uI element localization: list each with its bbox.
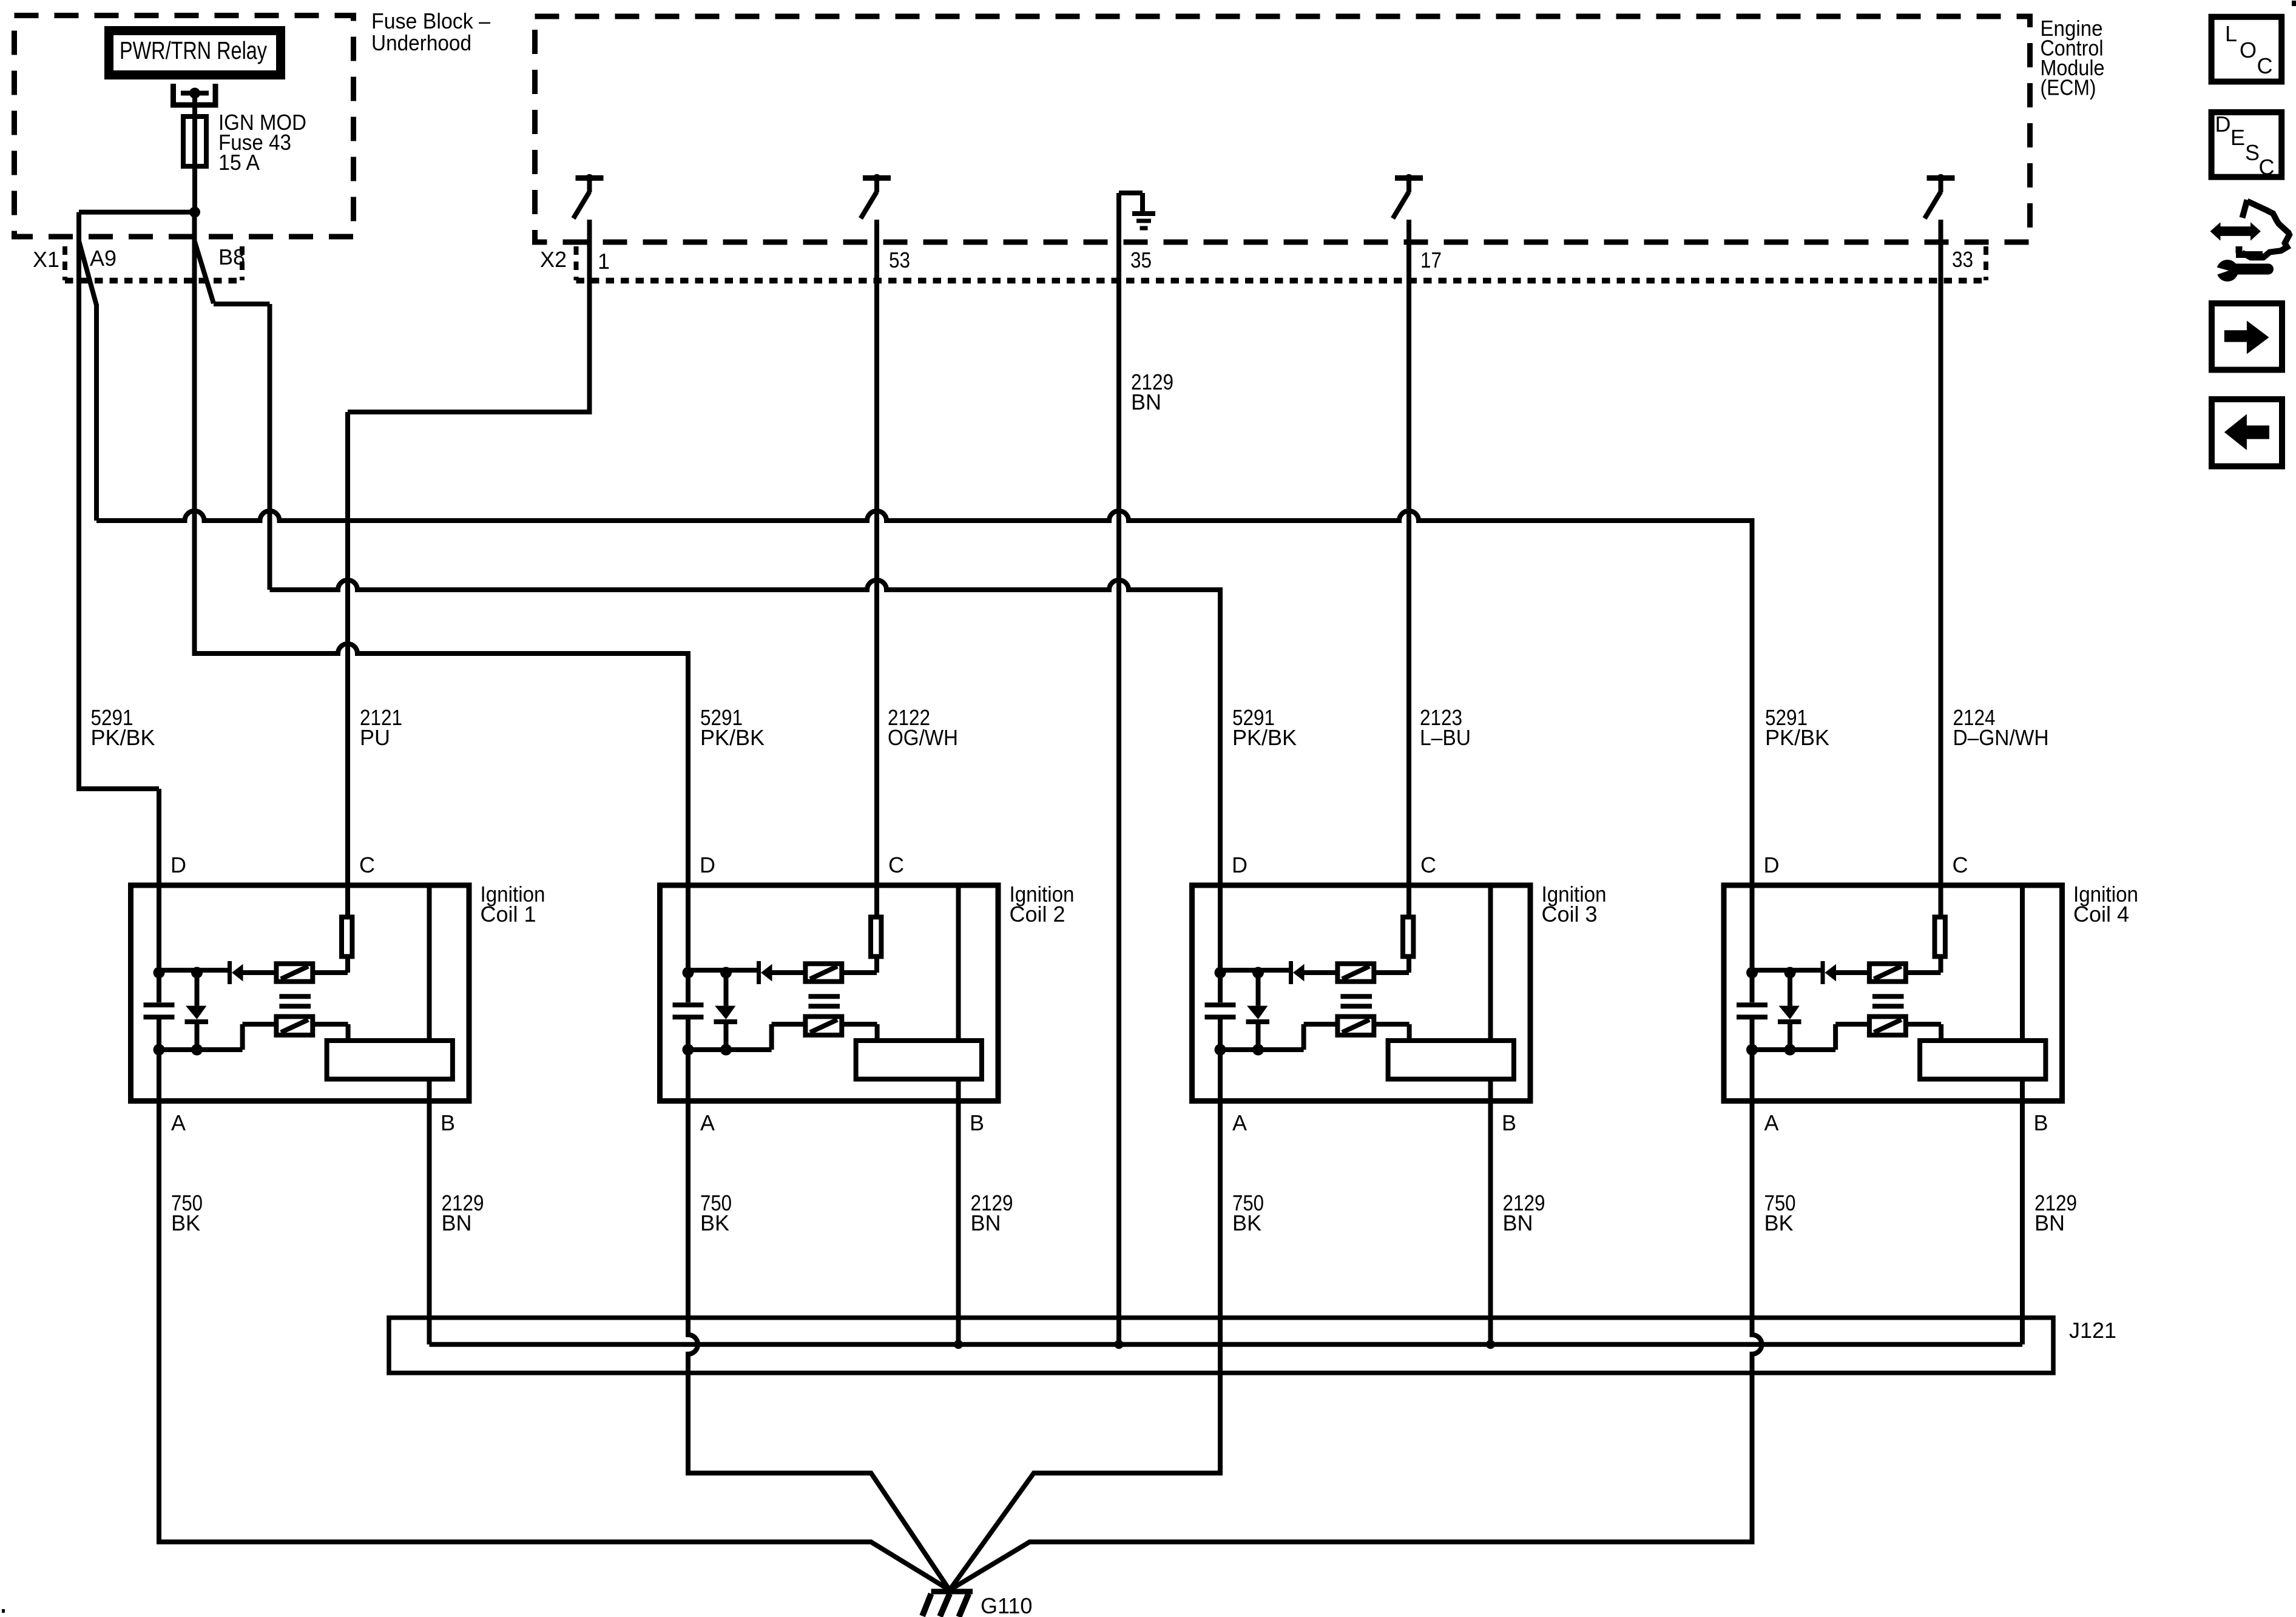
svg-text:OG/WH: OG/WH bbox=[888, 725, 958, 750]
label: wire 5291 PK/BK (coil1) bbox=[91, 705, 155, 750]
label: wire 750 BK (coil2 A) bbox=[700, 1190, 732, 1235]
wire: branch to B8 / coil2 feed via bus3 bbox=[195, 212, 689, 970]
svg-text:PWR/TRN Relay: PWR/TRN Relay bbox=[120, 36, 267, 64]
junction dot: coil3 B at J121 bbox=[1486, 1340, 1495, 1349]
svg-text:PK/BK: PK/BK bbox=[1232, 725, 1297, 750]
svg-text:C: C bbox=[1953, 852, 1968, 877]
junction dot on bracket bbox=[189, 88, 200, 99]
ECM internal ground symbol (pin 35) bbox=[1119, 193, 1155, 228]
svg-text:J121: J121 bbox=[2069, 1318, 2116, 1343]
svg-text:G110: G110 bbox=[981, 1593, 1032, 1617]
X2 connector dotted edge bbox=[576, 278, 1987, 284]
label: wire 2121 PU bbox=[360, 705, 402, 750]
wire 750 BK: coil4 A to G110 bbox=[950, 1050, 1762, 1590]
svg-text:Coil 4: Coil 4 bbox=[2073, 902, 2129, 927]
sidebar icon: back arrow box bbox=[2212, 399, 2282, 467]
svg-text:PK/BK: PK/BK bbox=[700, 725, 765, 750]
label: Ignition Coil 2 bbox=[1010, 882, 1075, 927]
svg-text:C: C bbox=[359, 852, 375, 877]
wire 2122 OG/WH: pin 53 to coil2 C bbox=[874, 220, 879, 917]
fuse F43 (IGN MOD Fuse 43 15 A) bbox=[183, 116, 206, 166]
svg-text:BN: BN bbox=[971, 1210, 1001, 1235]
engine control module dashed box bbox=[535, 16, 2030, 242]
svg-text:X1: X1 bbox=[33, 247, 59, 272]
svg-text:C: C bbox=[1420, 852, 1436, 877]
wire 2124 D-GN/WH: pin 33 to coil4 C bbox=[1939, 220, 1943, 917]
label: Ignition Coil 4 bbox=[2073, 882, 2138, 927]
connector X1 pin A9 terminal bbox=[79, 241, 96, 305]
svg-text:(ECM): (ECM) bbox=[2041, 75, 2096, 100]
sidebar icon: DESC box bbox=[2212, 112, 2282, 180]
svg-text:A: A bbox=[1232, 1110, 1247, 1135]
page corner mark top right bbox=[2292, 1, 2296, 6]
svg-text:Fuse Block –: Fuse Block – bbox=[371, 8, 490, 33]
label: wire 2129 BN (coil2 B) bbox=[971, 1190, 1013, 1235]
label: wire 2129 BN (coil1 B) bbox=[442, 1190, 484, 1235]
sidebar icon: next arrow box bbox=[2212, 303, 2282, 370]
svg-text:Coil 1: Coil 1 bbox=[481, 902, 536, 927]
svg-text:A9: A9 bbox=[90, 246, 116, 271]
X1 connector dash separators bbox=[65, 246, 242, 280]
svg-text:C: C bbox=[888, 852, 904, 877]
wire: fuse feed vertical bbox=[192, 93, 197, 212]
wire 2121 PU: pin 1 to coil1 C bbox=[348, 220, 590, 917]
svg-text:PK/BK: PK/BK bbox=[1765, 725, 1829, 750]
wire 750 BK: coil1 A to G110 bbox=[159, 1050, 950, 1590]
svg-text:B: B bbox=[970, 1110, 984, 1135]
wire: B8 pin to bus2 bbox=[214, 304, 270, 590]
label: wire 2124 D-GN/WH bbox=[1953, 705, 2049, 750]
wire 2123 L-BU: pin 17 to coil3 C bbox=[1406, 220, 1411, 917]
wire 2129 BN: pin 35 to splice J121 bbox=[1116, 193, 1121, 1345]
svg-text:17: 17 bbox=[1420, 248, 1442, 272]
ignition coil 4 assembly bbox=[1724, 883, 2062, 1345]
ECM switch driver pin 33 bbox=[1925, 174, 1955, 218]
svg-text:B8: B8 bbox=[218, 245, 245, 269]
wire 750 BK: coil2 A to G110 bbox=[688, 1050, 950, 1590]
sidebar icon: service/direction hand symbol bbox=[2203, 200, 2289, 282]
junction dot: coil2 B at J121 bbox=[954, 1340, 963, 1349]
label: wire 2129 BN (upper) bbox=[1131, 370, 1173, 414]
wire: branch to A9 / coil1 feed bbox=[79, 212, 195, 970]
svg-text:O: O bbox=[2240, 38, 2257, 62]
svg-text:B: B bbox=[1502, 1110, 1516, 1135]
label: wire 750 BK (coil3 A) bbox=[1232, 1190, 1264, 1235]
svg-text:Coil 3: Coil 3 bbox=[1542, 902, 1598, 927]
label: Engine Control Module (ECM) bbox=[2041, 16, 2105, 100]
svg-text:E: E bbox=[2230, 125, 2245, 150]
junction dot below fuse bbox=[189, 207, 200, 218]
label: wire 2123 L-BU bbox=[1420, 705, 1471, 750]
ignition coil 1 assembly bbox=[131, 883, 470, 1345]
label: wire 750 BK (coil1 A) bbox=[171, 1190, 203, 1235]
svg-text:D: D bbox=[2215, 112, 2231, 137]
svg-text:S: S bbox=[2245, 140, 2260, 165]
svg-text:BK: BK bbox=[1764, 1210, 1794, 1235]
svg-text:D–GN/WH: D–GN/WH bbox=[1953, 725, 2049, 750]
label: wire 5291 PK/BK (coil2) bbox=[700, 705, 765, 750]
svg-text:53: 53 bbox=[889, 248, 910, 272]
wire: A9 pin to bus1 bbox=[94, 304, 99, 521]
label: wire 5291 PK/BK (coil4) bbox=[1765, 705, 1829, 750]
splice bus J121 inner bar bbox=[430, 1342, 2023, 1347]
svg-text:Coil 2: Coil 2 bbox=[1010, 902, 1065, 927]
svg-text:1: 1 bbox=[598, 249, 610, 274]
svg-text:33: 33 bbox=[1952, 247, 1973, 272]
X1 connector dotted edge bbox=[65, 278, 242, 284]
svg-text:BK: BK bbox=[171, 1210, 200, 1235]
label: Fuse Block - Underhood bbox=[371, 8, 490, 55]
svg-text:BN: BN bbox=[1131, 390, 1161, 414]
label: wire 2129 BN (coil3 B) bbox=[1503, 1190, 1545, 1235]
svg-text:D: D bbox=[171, 852, 186, 877]
ECM switch driver pin 1 bbox=[573, 174, 604, 218]
ground G110 symbol bbox=[922, 1592, 973, 1617]
svg-text:D: D bbox=[700, 852, 715, 877]
svg-text:15 A: 15 A bbox=[218, 150, 260, 175]
svg-text:A: A bbox=[171, 1110, 186, 1135]
ECM switch driver pin 17 bbox=[1393, 174, 1423, 218]
wire: relay bracket bar bbox=[181, 91, 209, 96]
label: wire 2129 BN (coil4 B) bbox=[2034, 1190, 2077, 1235]
svg-text:L: L bbox=[2225, 21, 2237, 46]
label: wire 750 BK (coil4 A) bbox=[1764, 1190, 1796, 1235]
svg-text:D: D bbox=[1764, 852, 1780, 877]
svg-text:PK/BK: PK/BK bbox=[91, 725, 155, 750]
label: Ignition Coil 1 bbox=[481, 882, 545, 927]
relay socket bracket bbox=[174, 84, 216, 105]
svg-text:L–BU: L–BU bbox=[1420, 725, 1471, 750]
label: wire 5291 PK/BK (coil3) bbox=[1232, 705, 1297, 750]
svg-text:BN: BN bbox=[442, 1210, 472, 1235]
svg-text:BN: BN bbox=[2034, 1210, 2065, 1235]
label: IGN MOD Fuse 43 15 A bbox=[218, 110, 306, 175]
ECM switch driver pin 53 bbox=[861, 174, 891, 218]
wire bus1: A9 feed to coil4 (5291 PK/BK) bbox=[96, 511, 1752, 970]
svg-text:PU: PU bbox=[360, 725, 390, 750]
page corner mark bottom left bbox=[2, 1609, 5, 1613]
svg-text:B: B bbox=[2034, 1110, 2048, 1135]
svg-text:BK: BK bbox=[1232, 1210, 1261, 1235]
connector X1 pin B8 terminal bbox=[195, 241, 214, 303]
fuse block underhood dashed box bbox=[15, 16, 354, 237]
svg-text:A: A bbox=[1764, 1110, 1779, 1135]
sidebar icon: LOC box bbox=[2212, 17, 2282, 82]
label: wire 2122 OG/WH bbox=[888, 705, 958, 750]
svg-text:Underhood: Underhood bbox=[371, 30, 471, 55]
svg-text:A: A bbox=[700, 1110, 715, 1135]
wire bus2: B8 feed to coil3 (5291 PK/BK) bbox=[270, 580, 1221, 970]
svg-text:D: D bbox=[1232, 852, 1248, 877]
svg-text:B: B bbox=[441, 1110, 455, 1135]
svg-text:BN: BN bbox=[1503, 1210, 1533, 1235]
ignition coil 2 assembly bbox=[660, 883, 999, 1345]
ignition coil 3 assembly bbox=[1192, 883, 1531, 1345]
svg-text:35: 35 bbox=[1130, 248, 1152, 272]
svg-text:BK: BK bbox=[700, 1210, 729, 1235]
wire 750 BK: coil3 A to G110 bbox=[950, 1050, 1220, 1590]
svg-text:C: C bbox=[2257, 53, 2273, 78]
label: Ignition Coil 3 bbox=[1542, 882, 1607, 927]
relay K (PWR/TRN Relay) box bbox=[109, 31, 281, 75]
splice pack J121 outer box bbox=[389, 1318, 2053, 1373]
svg-text:C: C bbox=[2259, 155, 2275, 180]
svg-text:X2: X2 bbox=[540, 247, 567, 272]
junction dot: 2129 BN at J121 bbox=[1115, 1340, 1124, 1349]
X2 connector dash separators bbox=[576, 246, 1987, 280]
